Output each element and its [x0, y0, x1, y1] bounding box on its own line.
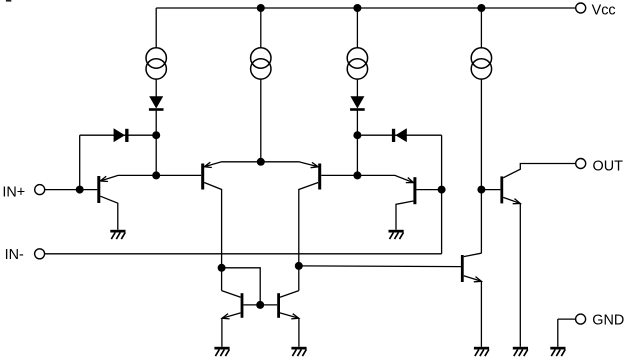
svg-text:Vcc: Vcc — [592, 2, 616, 18]
svg-text:IN+: IN+ — [2, 185, 25, 201]
svg-text:IN-: IN- — [5, 247, 24, 263]
svg-text:OUT: OUT — [593, 158, 624, 174]
svg-text:GND: GND — [592, 312, 624, 328]
